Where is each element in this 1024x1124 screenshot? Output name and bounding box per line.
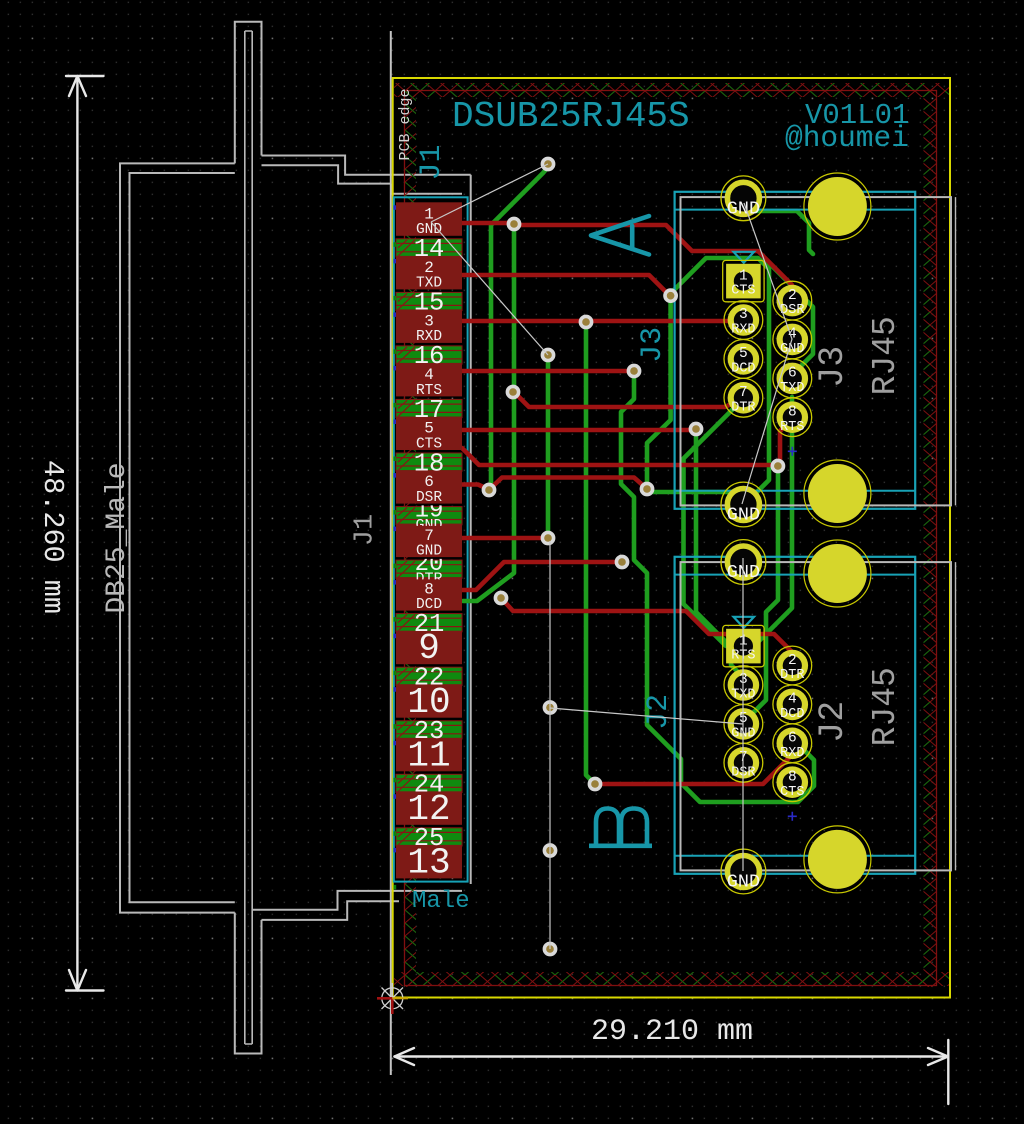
svg-text:J1: J1 [351,514,381,546]
via V3 [665,290,676,301]
wire back-copper V3 down to V10 [647,299,671,486]
pad 14 number label [414,235,445,264]
wire back-copper V4 down to V15 [586,325,593,782]
pad 15 J1 (back copper) [396,292,462,310]
J3 GND pad top [721,176,766,221]
connector J3 RJ45 outline [675,192,916,509]
dimension 48.260 mm vertical [36,76,104,991]
svg-text:2: 2 [788,653,797,669]
via V14 [496,593,507,604]
J1 bottom screw boss [235,913,262,1054]
J3 pin 6 TXD [773,359,812,398]
pad 10 J1 (front copper) [396,682,462,723]
J1 top screw boss [235,22,262,164]
J3 pin 3 RXD [724,301,763,340]
wire pad5 CTS past V8 to J3 pin8 [462,428,692,433]
pad 16 J1 (back copper) [396,346,462,364]
J2 GND pad bot [721,849,766,894]
J2 pin 5 GND [724,705,763,744]
svg-text:8: 8 [788,770,797,786]
via V10 [642,484,653,495]
via V6 [629,366,640,377]
wire pad4 RTS to via V6 [462,369,630,374]
J2 pin 6 RXD [773,724,812,763]
J2 mounting hole bottom [804,826,871,893]
svg-text:6: 6 [788,731,797,747]
svg-text:DSR: DSR [416,490,442,506]
pad 18 J1 (back copper) [396,453,462,471]
via V16 [590,779,601,790]
svg-text:13: 13 [407,842,450,883]
svg-text:DTR: DTR [780,668,804,683]
pad 20 J1 (back copper) [396,560,462,578]
J3 pin 7 DTR [724,378,763,417]
svg-text:RTS: RTS [780,420,804,435]
J2 GND pad top [721,540,766,585]
svg-text:RJ45: RJ45 [867,667,904,746]
svg-text:8: 8 [788,404,797,420]
via V18 [545,944,556,955]
PCB edge outline [393,78,950,998]
wire pad6 DSR to via V9 [462,485,489,490]
pad 2 J1 (front copper) [396,256,462,292]
J1 face plate bottom lines [262,901,400,920]
pad 3 J1 (front copper) [396,309,462,345]
svg-text:DCD: DCD [416,597,442,613]
svg-text:2: 2 [424,259,434,277]
svg-text:RXD: RXD [731,323,755,338]
J3 GND pad bot [721,482,766,527]
svg-text:GND: GND [727,872,760,893]
svg-text:DB25_Male: DB25_Male [102,462,133,613]
wire pad1 GND to via V2 [462,221,510,226]
wire back-copper V18 down to J2 pin5 [743,470,778,722]
svg-text:7: 7 [739,385,748,401]
svg-text:4: 4 [788,327,797,343]
svg-text:1: 1 [739,268,748,284]
J2 pin 3 TXD [724,666,763,705]
svg-text:4: 4 [788,692,797,708]
svg-text:CTS: CTS [731,284,755,299]
svg-text:J2: J2 [813,701,853,743]
svg-text:RTS: RTS [416,383,442,399]
pad 25 J1 (back copper) [396,828,462,846]
via V4 [581,317,592,328]
via V1 [543,159,554,170]
connector J1 DB25 shell outline (fab) [120,22,471,1054]
pad 16 number label [414,342,445,371]
svg-text:3: 3 [424,313,434,331]
wire V13 to J2 pin2 [503,600,792,658]
pad 19 J1 (back copper) [396,507,462,525]
svg-text:Male: Male [412,888,470,915]
J2 anchor marker [788,812,797,821]
J2 pin1 triangle marker [734,617,755,628]
wire back-copper J3 pin6 down to J2 pin1 [748,397,792,646]
wire back-copper V6 down around J2 pin8 to pin6 [621,374,814,802]
pad 19 number label [415,498,444,535]
svg-text:48.260 mm: 48.260 mm [36,460,69,614]
svg-text:@houmei: @houmei [785,121,909,155]
J2 pin 8 CTS [773,763,812,802]
J3 mounting hole bottom [804,460,871,527]
pad 1 J1 (front copper) [396,202,462,238]
wire V7 to J3 pin7 [516,394,741,407]
wire back-copper J3 pin1 loop to V10 [651,258,769,492]
J3 pin1 triangle marker [734,252,755,263]
J3 pin 4 GND [773,320,812,359]
J2 pin 7 DSR [724,743,763,782]
airwire via chain vertical [549,541,551,949]
svg-text:CTS: CTS [780,785,804,800]
svg-text:DCD: DCD [780,707,804,722]
via V8 [691,424,702,435]
wire net DSR back-copper from via V1 down to via V9 [491,167,548,487]
svg-text:GND: GND [727,505,760,526]
wire back-copper V5 to V11 [546,358,551,535]
courtyard hatch left band [405,88,417,987]
J1 courtyard rect [394,197,468,881]
airwire pad1 to V5 [431,222,548,355]
svg-text:GND: GND [416,543,442,559]
wire V15 to J2 pin6 [599,752,792,784]
svg-text:5: 5 [424,420,434,438]
J3 pin 2 DSR [773,281,812,320]
courtyard hatch top band [394,83,949,97]
wire pad7 GND to via V11 [462,536,544,541]
airwire J2 GND vertical [742,558,744,871]
J3 pin 1 CTS [723,260,764,301]
connector J2 RJ45 outline [675,557,916,874]
wire net GND back-copper V2 to V7 and down to pad 21 [463,227,514,601]
svg-text:RXD: RXD [416,329,442,345]
svg-text:TXD: TXD [780,381,804,396]
airwire J3 GND chain [742,203,792,504]
svg-text:TXD: TXD [416,276,442,292]
svg-text:J3: J3 [636,327,670,363]
svg-text:6: 6 [424,473,434,491]
wire pad8 DCD to via V12 [462,562,617,590]
pad 20 number label [415,551,444,588]
pad 8 J1 (front copper) [396,577,462,613]
pad 9 J1 (front copper) [396,628,462,669]
pad 7 J1 (front copper) [396,524,462,560]
pad 13 J1 (front copper) [396,842,462,883]
airwire V14 to J2 pin5 [550,708,743,724]
svg-text:GND: GND [727,199,760,220]
wire pad5 CTS lower branch to via V18 [462,448,773,465]
wire back-copper V8 down to J2 pin3 [696,432,743,677]
svg-text:29.210 mm: 29.210 mm [591,1015,753,1049]
svg-text:J3: J3 [813,346,853,388]
svg-text:12: 12 [407,789,450,830]
pad 15 number label [414,289,445,318]
via V7 [508,387,519,398]
J3 pin 8 RTS [773,398,812,437]
J1 connector face line at board edge [390,31,392,1075]
wire back-copper to J3 pin6 [764,258,813,374]
svg-text:7: 7 [424,527,434,545]
connector J2 fab outline [681,562,956,870]
via V15 [545,702,556,713]
via V17 [545,845,556,856]
pad 17 number label [414,396,445,425]
connector J3 fab outline [681,197,956,505]
J3 pin 5 DCD [724,340,763,379]
courtyard hatch bottom band [394,972,949,986]
pad 21 J1 (back copper) [396,614,462,632]
J1 screw shaft lines [245,31,252,1044]
airwire V1 to pad1 [431,164,548,222]
courtyard hatch right band [924,88,937,987]
pad 12 J1 (front copper) [396,789,462,830]
pad 22 number label [414,664,445,693]
via V5 [543,350,554,361]
pad 22 J1 (back copper) [396,667,462,685]
svg-text:GND: GND [780,342,804,357]
pad 6 J1 (front copper) [396,470,462,506]
svg-text:DTR: DTR [731,400,755,415]
wire back-copper J3 top GND stub [749,211,813,254]
svg-text:10: 10 [407,682,450,723]
J2 pin 1 RTS [723,625,764,666]
svg-text:6: 6 [788,366,797,382]
wire V2 to J3 pin2 front-copper [518,225,792,295]
courtyard boundary rect [405,91,937,986]
pad 17 J1 (back copper) [396,399,462,417]
J2 pin 2 DTR [773,646,812,685]
pad 14 J1 (back copper) [396,239,462,257]
svg-text:9: 9 [418,628,440,669]
dimension 29.210 mm horizontal [395,1015,949,1104]
J1 pad-edge tick marks [394,205,397,889]
via V9 [484,485,495,496]
pad 21 number label [414,610,445,639]
svg-text:4: 4 [424,366,434,384]
pad 24 number label [414,771,445,800]
via V11 [772,461,783,472]
J1 face plate top lines [262,156,471,175]
J3 anchor marker [788,447,797,456]
wire V9 to V10 front-copper [492,478,646,489]
pad 24 J1 (back copper) [396,774,462,792]
pad 18 number label [414,449,445,478]
svg-text:DCD: DCD [731,362,755,377]
J2 mounting hole top [804,540,871,607]
J2 pin 4 DCD [773,685,812,724]
silk letter B (rotated) [589,809,652,846]
wire back-copper J3 pin7 down to J2 pin1 [684,401,742,646]
pad 5 J1 (front copper) [396,417,462,453]
pad 25 number label [414,824,445,853]
wire J3 pin8 down to via V18 [778,419,792,466]
pad 4 J1 (front copper) [396,363,462,399]
svg-text:5: 5 [739,346,748,362]
svg-text:CTS: CTS [416,436,442,452]
pad 23 J1 (back copper) [396,721,462,739]
svg-text:RJ45: RJ45 [867,316,904,395]
svg-text:8: 8 [424,580,434,598]
svg-text:DSUB25RJ45S: DSUB25RJ45S [452,96,690,137]
J3 mounting hole top [804,173,871,240]
J1 face plate right edge [470,175,472,884]
svg-text:3: 3 [739,307,748,323]
svg-text:2: 2 [788,288,797,304]
svg-text:RXD: RXD [780,746,804,761]
via V2 [509,219,520,230]
svg-text:PCB edge: PCB edge [397,88,414,160]
svg-text:11: 11 [407,735,450,776]
via V12 [543,533,554,544]
silk letter A (rotated) [591,216,649,255]
origin marker [377,983,408,1014]
via V13 [617,557,628,568]
wire pad3 RXD to J3 pin3 [462,319,741,324]
pad 23 number label [414,717,445,746]
svg-text:J1: J1 [415,144,449,180]
svg-text:J2: J2 [642,694,676,730]
wire pad2 TXD to via V3 [462,275,668,294]
pad 11 J1 (front copper) [396,735,462,776]
